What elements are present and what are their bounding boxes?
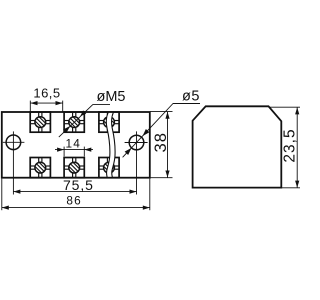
75,5 arrow right <box>130 190 137 194</box>
14 arrow left <box>57 148 64 152</box>
dimension 23,5 extension lines <box>269 106 301 108</box>
left hole centerline horizontal <box>3 141 25 143</box>
16,5 arrow right <box>56 101 63 105</box>
terminal screw B1 bottom-left <box>30 158 50 178</box>
dimension 38 extension lines <box>150 111 173 113</box>
o5 arrow upper <box>143 129 150 136</box>
terminal screw A2 top-middle <box>64 112 84 132</box>
dimension 23,5 line <box>296 107 298 188</box>
leader o5 line horizontal <box>173 103 200 105</box>
break band mask <box>106 112 115 177</box>
right hole centerline vertical <box>136 131 138 194</box>
16,5 arrow left <box>31 101 38 105</box>
dimension 86 line <box>2 207 150 209</box>
38 arrow bottom <box>165 171 169 178</box>
svg-text:øM5: øM5 <box>97 89 126 105</box>
terminal screw B3 bottom-right (broken) <box>99 158 119 178</box>
38 arrow top <box>165 112 169 119</box>
86 arrow left <box>2 206 9 210</box>
svg-text:75,5: 75,5 <box>63 177 94 193</box>
86 arrow right <box>143 206 150 210</box>
dimension 16,5 line <box>31 102 63 104</box>
oM5 arrow lower <box>63 126 70 133</box>
o5 arrow lower <box>125 148 132 155</box>
terminal screw A3 top-right (broken) <box>99 112 119 132</box>
side view outline <box>193 106 282 187</box>
svg-text:ø5: ø5 <box>182 88 200 104</box>
14 arrow right <box>84 148 91 152</box>
leader o5 line diagonal <box>123 104 173 158</box>
svg-text:23,5: 23,5 <box>281 128 298 162</box>
dimension 16,5 extension lines <box>29 101 31 112</box>
svg-text:86: 86 <box>66 193 82 207</box>
leader oM5 line horizontal <box>93 104 110 106</box>
75,5 arrow left <box>13 190 20 194</box>
oM5 arrow upper <box>80 110 86 116</box>
plate body fill <box>2 112 150 178</box>
left hole centerline vertical <box>12 131 14 194</box>
dimension 86 extension lines <box>1 179 3 211</box>
23,5 arrow bottom <box>295 181 299 188</box>
right hole centerline horizontal <box>125 142 148 144</box>
svg-text:38: 38 <box>152 132 170 152</box>
23,5 arrow top <box>295 107 299 114</box>
dimension 14 extension lines <box>63 147 65 157</box>
dimension 75,5 line <box>13 191 136 193</box>
mounting hole left <box>6 135 21 150</box>
plate outline <box>2 112 150 178</box>
svg-text:14: 14 <box>66 137 82 151</box>
svg-text:16,5: 16,5 <box>33 85 60 100</box>
dimension 14 line with tails <box>55 149 93 151</box>
terminal screw A1 top-left <box>30 112 50 132</box>
dimension 38 line <box>167 112 169 178</box>
break line left <box>106 112 110 177</box>
mounting hole right <box>129 135 144 150</box>
leader oM5 line diagonal <box>59 105 93 138</box>
terminal screw B2 bottom-middle <box>64 158 84 178</box>
break line right <box>111 112 115 177</box>
